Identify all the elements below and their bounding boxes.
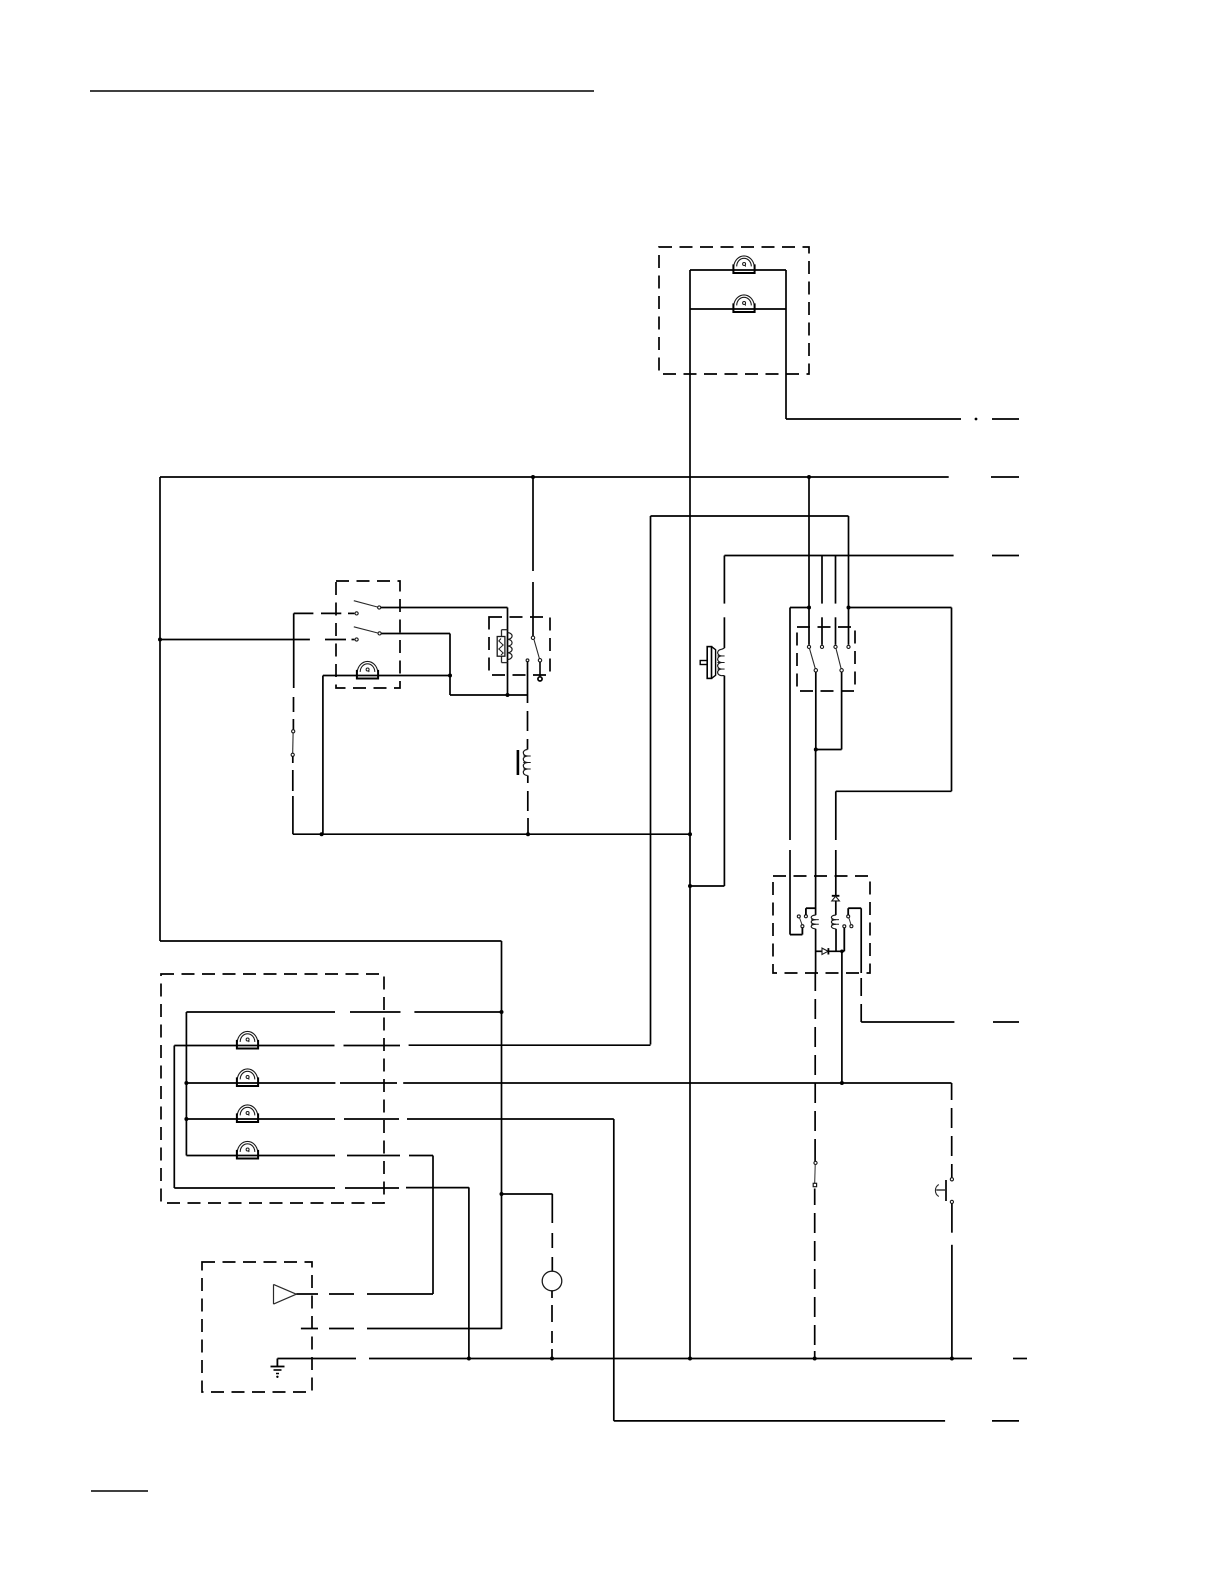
wire: y=419 to right edge connector (786, 418, 961, 420)
wire: y=791.3 jog (836, 790, 952, 792)
wire: S1 lower output y=633.5 (381, 633, 450, 635)
wire: y=1194 jog right (502, 1193, 553, 1195)
wire: y=516 cross feed (651, 515, 849, 517)
K1 output stub + terminal (539, 662, 541, 676)
dashed enclosure: front indicator lamp cluster (659, 247, 809, 374)
K1 blade (534, 640, 539, 659)
S1 upper blade (354, 601, 378, 607)
right switch lower contact riser (843, 925, 846, 928)
wire: x=841.6 output down and jog left (841, 672, 843, 750)
S2 blade 1 moving contact (814, 669, 817, 672)
wire: y=695 (450, 694, 528, 696)
wire: bottom ground bus y=1358.5 (277, 1358, 356, 1360)
wire: x=809 from y=477 to contact (808, 477, 810, 645)
dashed enclosure: audible warning module U2 (202, 1262, 312, 1392)
wire: y=1119 row to x=613.8 (186, 1118, 335, 1120)
wire: x=724.4 down to horn (723, 556, 725, 604)
dashed enclosure: switch assembly S2 (797, 627, 855, 691)
wire: S1 lower contact feed y=639.5 from left bus (160, 639, 310, 641)
horn LS1 (speaker with coil) (700, 647, 715, 679)
lamp DS1 (733, 256, 754, 273)
wire: x=552.5 dashed down to motor (551, 1194, 553, 1223)
wire: x=814.7 below S4 dashed to bottom bus (814, 1189, 816, 1206)
wire: x=835.5 (835, 556, 837, 604)
node x=841.9 y=1083 (840, 1081, 844, 1085)
wire: y=1188 row to x=468.9 (174, 1187, 335, 1189)
wire: vertical x=501.5 (501, 941, 503, 1329)
wire: y=1420.9 out to edge (614, 1420, 945, 1422)
wire: x=951.5 down (951, 608, 953, 792)
dashed enclosure: flasher/relay unit U1 (773, 876, 870, 973)
wire: S1 upper output y=607.5 to relay (381, 607, 508, 609)
wire: left switch to x=790 (801, 928, 803, 935)
S2 blade 2 (836, 649, 841, 668)
wire: x=951.5 dashed down to push button (951, 1083, 953, 1100)
horn coil (721, 648, 724, 649)
wire: x=790 down (789, 608, 791, 841)
wire: right vertical of lamp cluster down to y=419 (785, 270, 787, 419)
wire: x=322.9 down (322, 676, 324, 835)
wire: y=1012 row (186, 1011, 335, 1013)
K1 moving contact (538, 659, 541, 662)
left switch alternate contact + stub (804, 915, 807, 918)
switch S3 on x=293 (292, 730, 295, 733)
push button S5 (950, 1178, 953, 1181)
coil K2 (811, 915, 815, 929)
page footer tick (91, 1490, 148, 1492)
node at x=809 on y=477 (807, 475, 811, 479)
dashed enclosure: rear lamp panel (161, 974, 384, 1203)
right switch feed stub (847, 908, 849, 915)
title rule line (90, 90, 594, 92)
wire: DS3 line y=675.5 (323, 675, 450, 677)
K1 parallel resistor (497, 637, 505, 657)
wire: K3 bottom (835, 929, 837, 952)
wire: y=1083 row long to x=951.5 (186, 1082, 335, 1084)
S1 upper contact (355, 612, 358, 615)
wire: y=607.5 left branch to x=790 (790, 607, 809, 609)
S1 lower contact (355, 638, 358, 641)
wire: y=886 jog to x=690 bus (690, 885, 724, 887)
left changeover switch in U1 (797, 915, 800, 918)
S1 lower blade (354, 627, 378, 633)
K1 fixed contact (526, 659, 529, 662)
wire: x=815 dashed down to switch S4 (814, 973, 816, 991)
wire: y=1022 out to edge (861, 1021, 954, 1023)
lamp DS1 feed wire (left vertical bus x=690 long) (689, 270, 691, 1359)
wire: x=835.8 down to D1 (835, 791, 837, 840)
lamp DS6 (237, 1105, 258, 1122)
S2 contacts (807, 645, 810, 648)
wire: below S5 to bottom bus (951, 1204, 953, 1233)
wire: x=613.8 down (613, 1119, 615, 1421)
ground symbol (276, 1359, 278, 1367)
node x=501.5 y=1012 (500, 1010, 504, 1014)
wire: inner bus x=186.4 (185, 1012, 187, 1156)
wire: x=527.5 below L1 to y=834 (527, 776, 529, 784)
wire: horn to node y=886 (723, 676, 725, 886)
motor M1 (circle) (542, 1271, 562, 1291)
wire: x=507.5 through coil (507, 608, 509, 696)
wire: D1 to coil K3 (835, 901, 837, 915)
wire: amp output y=1294 (296, 1293, 318, 1295)
node x=809 y=607.5 (807, 606, 811, 610)
wire: left bus x=160 (159, 477, 161, 941)
wire: x=552 below motor to bottom bus (551, 1291, 553, 1298)
wire: S1 upper contact feed y=613.4 (294, 612, 314, 614)
wire: x=293 below S3 to y=834 (292, 757, 294, 764)
wire: U2 second output y=1328.5 (301, 1328, 318, 1330)
wire: x=450 (449, 634, 451, 696)
wire: x=841.9 down from D2 line (840, 950, 844, 954)
wire: x=815.6 down into flasher (815, 750, 817, 916)
S1 lower output contact (378, 632, 381, 635)
wire: x=293.7 riser (293, 613, 295, 688)
wire: x=861.2 down (860, 908, 862, 973)
diode D2 + output line (816, 950, 822, 952)
wire: K2 line down (815, 929, 817, 973)
wire: x=468.9 down (468, 1187, 470, 1358)
S1 upper output contact (378, 606, 381, 609)
lamp DS3 (357, 661, 378, 678)
wire: main feed y=477 (160, 476, 949, 478)
wire: y=1155.5 row to x=433 (186, 1155, 335, 1157)
wire: x=822 (821, 556, 823, 604)
wire: x=527.5 contact down (527, 662, 529, 695)
wire: x=527.5 dashed to inductor (527, 695, 529, 703)
wire: y=834.2 across to x=690 (293, 833, 690, 835)
S2 blade 2 moving contact (840, 669, 843, 672)
lamp DS2 (733, 295, 754, 312)
dashed enclosure: turn signal switch S1 (336, 581, 400, 688)
wire: y=555.5 feed to horn and switch contacts (724, 555, 953, 557)
node x=507.5 y=695 (506, 693, 510, 697)
wire: x=815.8 output down (815, 672, 817, 750)
diode D1 (832, 895, 840, 897)
wire: x=433 down to amp output (432, 1156, 434, 1295)
wire: y=607.5 right branch to x=951.5 (849, 607, 952, 609)
amplifier/buzzer driver triangle (273, 1284, 275, 1304)
K1 coil winding (508, 633, 513, 660)
dashed enclosure: relay K1 (489, 617, 550, 675)
switch S4 (814, 1161, 817, 1164)
right changeover switch in U1 (847, 915, 850, 918)
K1 coil bracket (502, 629, 508, 631)
coil K3 (831, 915, 835, 929)
wire: x=533 from y=477 down to relay blade (532, 477, 534, 571)
node x=501.5 y=1194 (500, 1192, 504, 1196)
S2 blade 1 (810, 649, 816, 668)
wire: y=1045.5 row to x=650.5 (174, 1045, 334, 1047)
wire: lamp rail 2 (690, 308, 786, 310)
wire: x=650.5 vertical down to lamp panel line (650, 516, 652, 1045)
inductor L1 with core (523, 750, 527, 776)
node at x=533 on y=477 (531, 475, 535, 479)
lamp DS7 (237, 1141, 258, 1158)
wire: outer bus x=174.3 (173, 1046, 175, 1189)
lamp DS4 (237, 1031, 258, 1048)
K1 blade pivot contact (531, 636, 534, 639)
wire: x=848.5 from y=516 (848, 516, 850, 645)
wire: y=941 across (160, 940, 502, 942)
lamp DS5 (237, 1069, 258, 1086)
wire: lamp rail 1 (690, 269, 786, 271)
